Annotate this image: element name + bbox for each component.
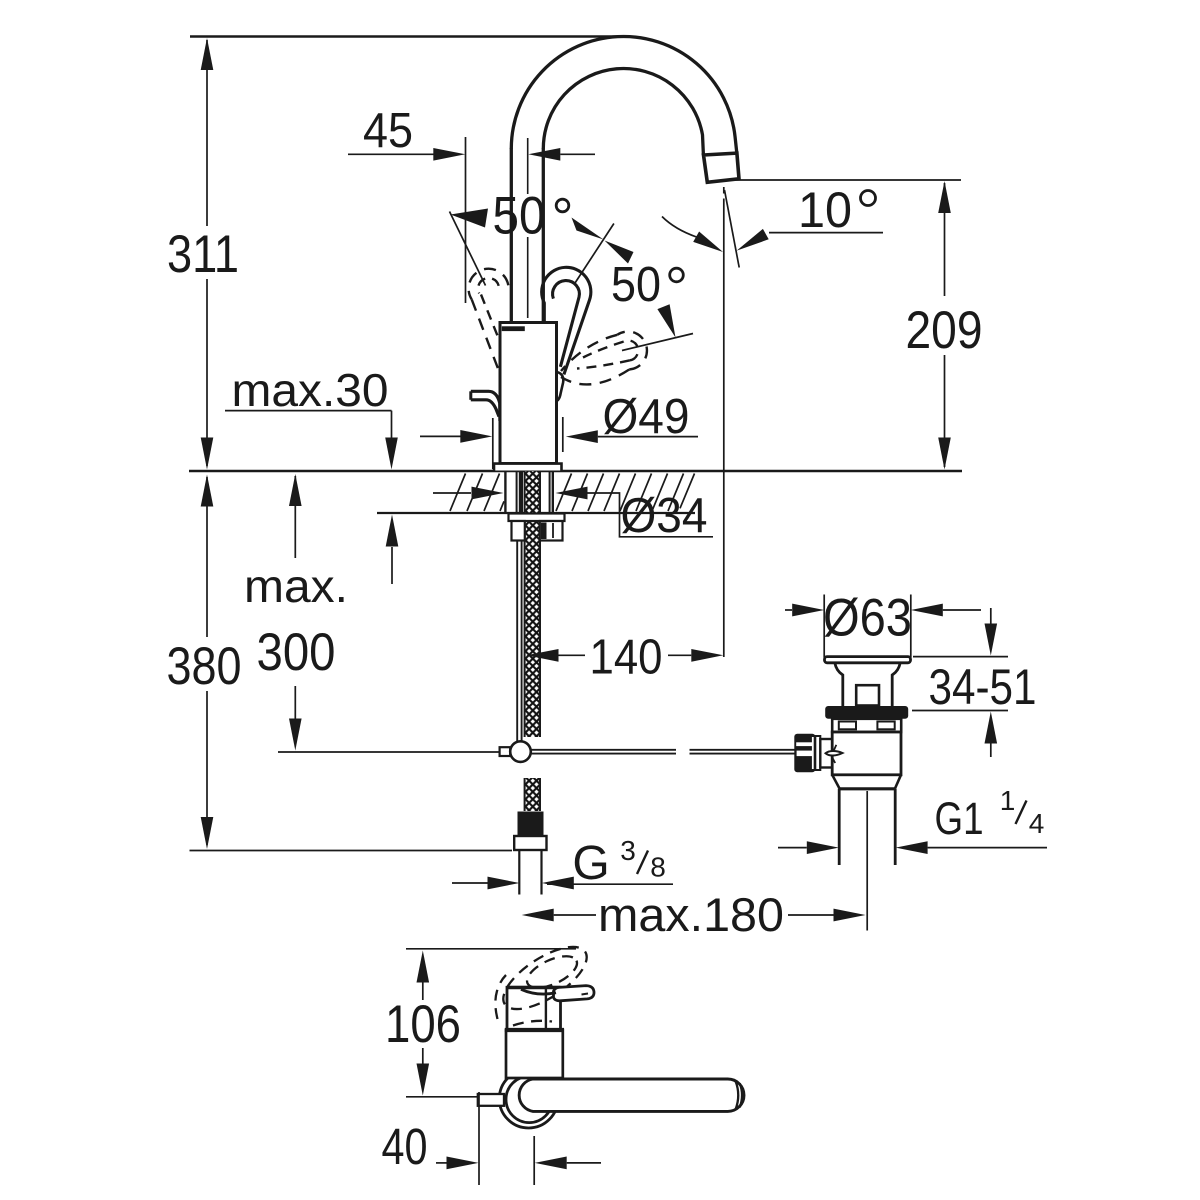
faucet axis line (527, 138, 529, 194)
svg-text:G1: G1 (935, 793, 984, 844)
max300 reference line (278, 751, 500, 753)
mounting nut left block (512, 521, 525, 541)
svg-text:4: 4 (1029, 808, 1045, 839)
svg-text:Ø34: Ø34 (621, 489, 708, 543)
pull rod in shank (519, 471, 523, 513)
rod tip pointer (826, 751, 843, 756)
dim G1 1/4 (778, 847, 807, 849)
drain pipe centerline (866, 791, 868, 931)
front lever bar (519, 1079, 744, 1111)
svg-text:Ø63: Ø63 (823, 589, 912, 648)
svg-text:40: 40 (382, 1118, 428, 1175)
angle lever axis leader (575, 224, 614, 284)
angle 50 left arrowhead (451, 209, 489, 228)
thumbscrew collar (815, 736, 820, 770)
dim 311 vertical dimension line (206, 40, 208, 226)
svg-text:10: 10 (798, 182, 852, 238)
10deg leader underline (769, 232, 883, 234)
dim 45 tick (465, 137, 467, 303)
rod junction circle (510, 741, 531, 762)
front body upper box (507, 987, 561, 1030)
drain tail pipe (838, 789, 841, 865)
solid loop handle inner (553, 281, 580, 367)
hatch right group (556, 474, 695, 512)
dim 140 (527, 649, 559, 662)
svg-text:300: 300 (257, 623, 336, 682)
svg-text:311: 311 (167, 225, 239, 284)
dim G3/8 (452, 882, 488, 884)
drain taper (832, 775, 839, 789)
svg-text:G: G (572, 837, 609, 890)
dashed loop left outer (469, 269, 509, 300)
lever (471, 391, 500, 421)
svg-text:45: 45 (363, 104, 413, 158)
10deg arrowhead (737, 229, 769, 251)
drain slot band (832, 719, 901, 732)
svg-text:3: 3 (620, 835, 636, 866)
spout pipe (510, 148, 513, 323)
spout stream axis line (723, 187, 725, 194)
dim 209 top reference line (724, 179, 961, 181)
dashed loop right inner legs (583, 342, 624, 358)
drain flange (825, 657, 911, 663)
dim Ø49 right arrow + leader (566, 430, 598, 443)
dashed loop left inner leg (481, 295, 500, 343)
dashed loop right bottom edge (561, 370, 629, 385)
drain body (832, 732, 901, 775)
svg-text:1: 1 (1000, 785, 1016, 816)
svg-text:50: 50 (611, 258, 661, 312)
base plate (494, 464, 562, 471)
svg-text:8: 8 (650, 852, 666, 883)
svg-text:max.: max. (244, 560, 348, 612)
svg-text:140: 140 (590, 631, 663, 685)
angle 50 right arrowhead (657, 304, 675, 337)
svg-text:380: 380 (167, 637, 242, 696)
spout arch outer (511, 36, 737, 152)
dim 311 top reference line (190, 35, 621, 37)
front cartridge stem line (545, 988, 547, 1029)
braided hose upper (525, 471, 540, 737)
front stub (478, 1094, 504, 1106)
shank walls (504, 471, 506, 513)
front view bottom reference line (406, 1096, 495, 1098)
angle 50 left leader (450, 212, 486, 286)
dashed loop left inner (478, 278, 499, 293)
swivel curved arrow (662, 217, 697, 238)
dim max300 (294, 476, 296, 558)
mounting nut washer (509, 514, 565, 522)
body pin mark (502, 326, 525, 331)
dim max180 (522, 909, 554, 922)
counter bottom line (377, 512, 695, 514)
dashed loop right outer (617, 332, 647, 370)
hose nut (514, 836, 546, 850)
drain lower flange (825, 706, 908, 719)
hose tube (518, 850, 520, 895)
dim Ø49 left arrow (420, 435, 461, 437)
svg-text:106: 106 (385, 995, 461, 1054)
dim 380 (206, 477, 208, 637)
dashed loop left outer leg (472, 299, 500, 372)
dim 34-51 (913, 656, 1008, 658)
svg-text:Ø49: Ø49 (603, 390, 690, 444)
loop pivot foot (557, 372, 564, 401)
drain neck (835, 663, 843, 706)
dim Ø49 ticks (492, 418, 494, 469)
svg-text:max.30: max.30 (232, 364, 389, 416)
solid loop handle outer (542, 267, 591, 374)
svg-text:209: 209 (906, 301, 983, 360)
angle 50 right leader (622, 334, 693, 351)
drain window (856, 685, 879, 705)
spout aerator cap (704, 153, 740, 182)
thumbscrew knob (794, 734, 815, 773)
faucet body (500, 323, 557, 464)
dim 40 (478, 1092, 480, 1185)
spout arch inner (543, 69, 703, 155)
hatch left group (450, 474, 504, 512)
hose fitting block (518, 812, 544, 837)
dashed loop right top edge (561, 335, 617, 371)
horizontal pop-up rod (531, 749, 676, 751)
lever axis arrowheads (572, 218, 604, 240)
front escutcheon rings (499, 1069, 558, 1128)
dashed loop right inner (624, 340, 639, 360)
dim Ø34 arrows (433, 492, 471, 494)
svg-text:34-51: 34-51 (929, 659, 1037, 715)
svg-text:50: 50 (493, 187, 546, 246)
thumbscrew port tube (820, 739, 835, 768)
front view top reference line (406, 948, 576, 950)
dim 311 arrowhead up (201, 38, 214, 70)
dim 209 vertical line (944, 183, 946, 296)
counter top line (189, 470, 962, 473)
380 bottom reference line (190, 850, 513, 852)
pop-up pull rod (516, 541, 518, 742)
front solid lever flag (554, 986, 595, 1001)
dim 311 arrowhead down (201, 438, 214, 470)
front body lower column (506, 1030, 563, 1078)
dim 106 (417, 951, 430, 983)
braided hose lower (525, 778, 540, 811)
stream tilted line 10deg (725, 190, 740, 268)
svg-text:max.180: max.180 (598, 888, 784, 941)
dim Ø63 (823, 595, 825, 658)
front dashed lever cluster (494, 935, 596, 1025)
front body cap line (505, 1028, 564, 1032)
mounting nut right block (540, 521, 563, 541)
rod junction stub (500, 747, 511, 756)
